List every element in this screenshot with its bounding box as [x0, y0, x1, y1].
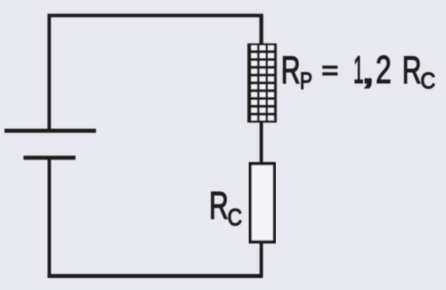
- wire right vertical lower (Rc to bottom corner): [260, 241, 263, 278]
- label RC: [209, 185, 242, 231]
- svg-text:R: R: [209, 185, 228, 228]
- wire top horizontal: [48, 14, 264, 17]
- wire between Rp and Rc: [260, 120, 263, 166]
- resistor RP (hatched body): [247, 43, 276, 122]
- svg-text:R: R: [402, 49, 421, 92]
- resistor RC (open body): [250, 164, 274, 242]
- svg-text:,: ,: [360, 48, 376, 92]
- svg-text:2: 2: [376, 49, 392, 92]
- wire left vertical lower (battery - plate to bottom corner): [48, 157, 51, 277]
- wire left vertical upper (top corner to battery + plate): [48, 14, 51, 130]
- wire right vertical upper (top corner to Rp): [259, 14, 263, 46]
- label RP = 1,2 RC: [281, 48, 435, 95]
- battery B1 negative plate (short): [24, 156, 76, 160]
- svg-text:P: P: [300, 67, 312, 95]
- battery B1 positive plate (long): [5, 129, 97, 133]
- svg-text:C: C: [228, 204, 243, 231]
- svg-text:R: R: [281, 49, 300, 92]
- wire bottom horizontal: [48, 274, 263, 278]
- svg-text:C: C: [421, 67, 436, 94]
